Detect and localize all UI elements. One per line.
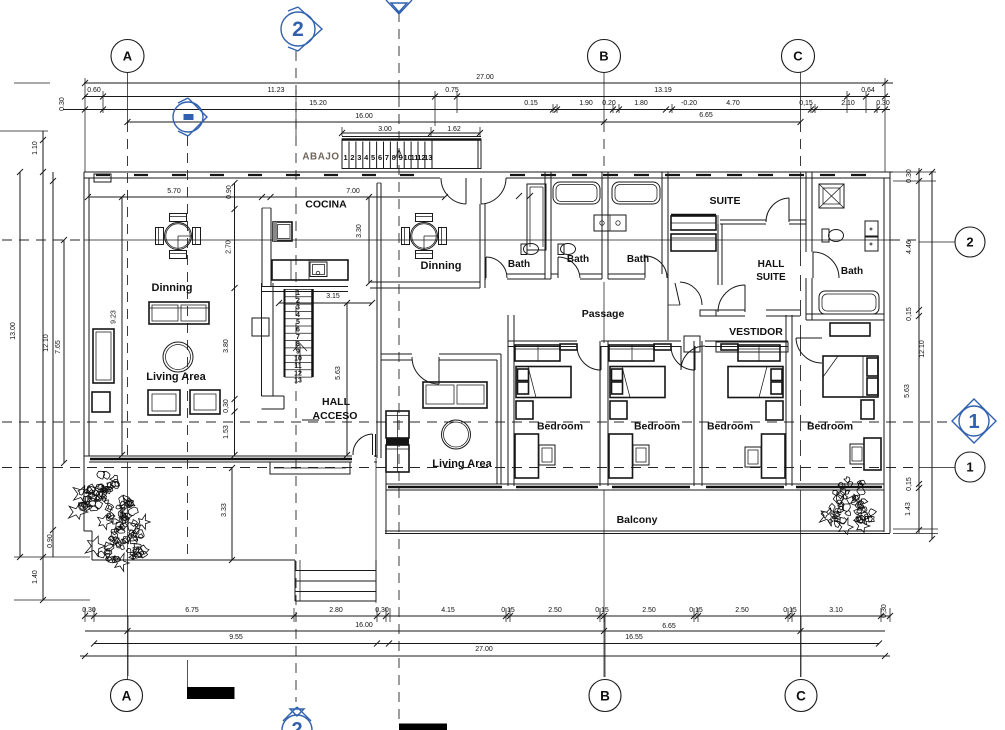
svg-text:0,15: 0,15 xyxy=(595,607,609,614)
svg-text:0.60: 0.60 xyxy=(87,87,101,94)
svg-text:Dinning: Dinning xyxy=(152,282,193,294)
svg-text:0,15: 0,15 xyxy=(799,100,813,107)
svg-text:5.63: 5.63 xyxy=(904,384,911,398)
svg-text:6: 6 xyxy=(296,327,300,334)
svg-text:C: C xyxy=(796,688,806,703)
svg-text:0.90: 0.90 xyxy=(47,534,54,548)
svg-text:Living Area: Living Area xyxy=(432,458,492,470)
svg-text:1.62: 1.62 xyxy=(447,126,461,133)
svg-text:2: 2 xyxy=(296,297,300,304)
svg-text:5: 5 xyxy=(371,153,375,162)
svg-text:13: 13 xyxy=(424,153,432,162)
svg-text:5: 5 xyxy=(296,319,300,326)
svg-text:Bath: Bath xyxy=(508,259,530,270)
svg-text:0.15: 0.15 xyxy=(524,100,538,107)
svg-text:1: 1 xyxy=(296,290,300,297)
svg-text:3.10: 3.10 xyxy=(829,607,843,614)
svg-text:1.80: 1.80 xyxy=(634,100,648,107)
svg-text:HALL: HALL xyxy=(758,259,785,270)
svg-text:0.64: 0.64 xyxy=(861,87,875,94)
svg-text:6: 6 xyxy=(378,153,382,162)
svg-text:2.50: 2.50 xyxy=(642,607,656,614)
svg-text:0.75: 0.75 xyxy=(445,87,459,94)
svg-text:9.23: 9.23 xyxy=(111,310,118,324)
svg-text:2: 2 xyxy=(966,235,973,250)
svg-text:1: 1 xyxy=(966,460,973,475)
svg-text:12.10: 12.10 xyxy=(43,334,50,352)
svg-text:4: 4 xyxy=(296,312,300,319)
svg-text:3: 3 xyxy=(296,305,300,312)
svg-text:2: 2 xyxy=(292,18,304,41)
svg-text:Bedroom: Bedroom xyxy=(634,421,680,433)
svg-text:2.50: 2.50 xyxy=(548,607,562,614)
svg-text:27.00: 27.00 xyxy=(475,646,493,653)
svg-text:3.15: 3.15 xyxy=(326,293,340,300)
svg-text:Bedroom: Bedroom xyxy=(707,421,753,433)
svg-text:9.55: 9.55 xyxy=(229,634,243,641)
svg-text:ACCESO: ACCESO xyxy=(313,410,358,422)
svg-text:4.46: 4.46 xyxy=(906,240,913,254)
svg-text:7: 7 xyxy=(296,334,300,341)
svg-text:1.90: 1.90 xyxy=(579,100,593,107)
svg-text:0,15: 0,15 xyxy=(689,607,703,614)
svg-text:12.10: 12.10 xyxy=(919,340,926,358)
svg-text:0,30: 0,30 xyxy=(223,399,230,413)
svg-text:13.19: 13.19 xyxy=(654,87,672,94)
svg-text:12: 12 xyxy=(294,370,302,377)
svg-text:11: 11 xyxy=(294,363,302,370)
svg-text:1.40: 1.40 xyxy=(32,570,39,584)
svg-text:5.70: 5.70 xyxy=(167,188,181,195)
svg-text:Bath: Bath xyxy=(627,254,649,265)
svg-text:5.63: 5.63 xyxy=(335,366,342,380)
svg-text:A: A xyxy=(123,49,133,64)
svg-text:9: 9 xyxy=(296,348,300,355)
svg-text:8: 8 xyxy=(392,153,396,162)
svg-text:7.65: 7.65 xyxy=(55,340,62,354)
svg-text:2.10: 2.10 xyxy=(841,100,855,107)
svg-text:15.20: 15.20 xyxy=(309,100,327,107)
svg-text:HALL: HALL xyxy=(322,396,351,408)
svg-text:0.20: 0.20 xyxy=(602,100,616,107)
svg-text:16.00: 16.00 xyxy=(355,622,373,629)
svg-text:0,15: 0,15 xyxy=(906,307,913,321)
svg-text:9: 9 xyxy=(399,153,403,162)
svg-text:C: C xyxy=(793,49,803,64)
svg-text:Bath: Bath xyxy=(567,254,589,265)
svg-text:6.65: 6.65 xyxy=(699,112,713,119)
svg-text:7: 7 xyxy=(385,153,389,162)
svg-text:2.80: 2.80 xyxy=(329,607,343,614)
svg-text:0.30: 0.30 xyxy=(59,97,66,111)
svg-text:16.55: 16.55 xyxy=(625,634,643,641)
svg-text:B: B xyxy=(599,49,608,64)
svg-text:3.33: 3.33 xyxy=(221,503,228,517)
svg-text:13: 13 xyxy=(294,378,302,385)
svg-text:7.00: 7.00 xyxy=(346,188,360,195)
svg-text:10: 10 xyxy=(294,356,302,363)
svg-text:1.10: 1.10 xyxy=(32,141,39,155)
svg-text:SUITE: SUITE xyxy=(710,195,741,207)
svg-text:-0.20: -0.20 xyxy=(681,100,697,107)
svg-text:ABAJO: ABAJO xyxy=(302,152,339,163)
svg-text:4.70: 4.70 xyxy=(726,100,740,107)
svg-text:0.30: 0.30 xyxy=(876,100,890,107)
svg-text:SUITE: SUITE xyxy=(756,272,786,283)
svg-text:3.30: 3.30 xyxy=(356,224,363,238)
svg-text:2: 2 xyxy=(291,719,302,730)
svg-text:0,30: 0,30 xyxy=(82,607,96,614)
svg-text:2.50: 2.50 xyxy=(735,607,749,614)
svg-text:1.53: 1.53 xyxy=(223,425,230,439)
svg-text:2.70: 2.70 xyxy=(226,240,233,254)
svg-text:Bedroom: Bedroom xyxy=(537,421,583,433)
svg-text:Dinning: Dinning xyxy=(421,260,462,272)
svg-text:2: 2 xyxy=(350,153,354,162)
svg-text:3.80: 3.80 xyxy=(223,339,230,353)
svg-text:16.00: 16.00 xyxy=(355,113,373,120)
svg-text:3: 3 xyxy=(357,153,361,162)
svg-text:B: B xyxy=(600,688,610,703)
svg-text:0.90: 0.90 xyxy=(226,185,233,199)
svg-text:27.00: 27.00 xyxy=(476,74,494,81)
svg-text:4.15: 4.15 xyxy=(441,607,455,614)
svg-text:11.23: 11.23 xyxy=(268,87,285,94)
svg-text:COCINA: COCINA xyxy=(305,199,347,211)
svg-text:1: 1 xyxy=(968,411,979,433)
svg-text:Living Area: Living Area xyxy=(146,371,206,383)
svg-text:0,15: 0,15 xyxy=(501,607,515,614)
svg-text:1.43: 1.43 xyxy=(905,502,912,516)
svg-text:A: A xyxy=(122,688,132,703)
svg-text:0,30: 0,30 xyxy=(375,607,389,614)
svg-text:6.65: 6.65 xyxy=(662,623,676,630)
svg-text:3.00: 3.00 xyxy=(378,126,392,133)
svg-text:0,15: 0,15 xyxy=(783,607,797,614)
svg-text:Bedroom: Bedroom xyxy=(807,421,853,433)
svg-text:Passage: Passage xyxy=(582,308,625,320)
svg-text:6.75: 6.75 xyxy=(185,607,199,614)
svg-text:13.00: 13.00 xyxy=(10,322,17,340)
svg-text:VESTIDOR: VESTIDOR xyxy=(729,326,783,338)
svg-text:Bath: Bath xyxy=(841,266,863,277)
svg-text:0,15: 0,15 xyxy=(906,477,913,491)
svg-text:0,30: 0,30 xyxy=(881,604,888,618)
svg-text:1: 1 xyxy=(343,153,347,162)
svg-text:Balcony: Balcony xyxy=(617,514,658,526)
